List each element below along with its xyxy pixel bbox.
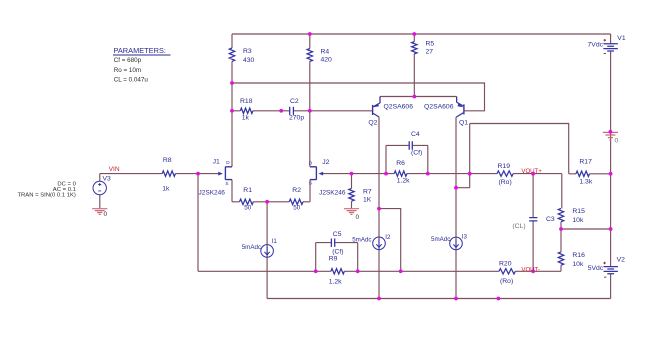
svg-text:TRAN = SIN(0 0.1 1K): TRAN = SIN(0 0.1 1K): [17, 192, 75, 198]
svg-text:J2SK246: J2SK246: [199, 190, 226, 197]
svg-text:C2: C2: [290, 98, 299, 105]
svg-text:0: 0: [615, 138, 619, 145]
svg-text:50: 50: [293, 204, 301, 211]
svg-text:R7: R7: [363, 189, 372, 196]
svg-text:1k: 1k: [162, 186, 170, 193]
svg-text:R3: R3: [243, 48, 252, 55]
svg-text:Q2SA606: Q2SA606: [384, 103, 414, 110]
svg-text:R4: R4: [321, 48, 330, 55]
svg-text:(Ro): (Ro): [499, 179, 512, 186]
svg-text:1K: 1K: [363, 197, 372, 204]
svg-text:PARAMETERS:: PARAMETERS:: [114, 46, 166, 55]
svg-text:R6: R6: [396, 160, 405, 167]
svg-text:R20: R20: [499, 261, 512, 268]
svg-text:1.2k: 1.2k: [397, 178, 410, 185]
svg-text:Cf = 680p: Cf = 680p: [114, 57, 142, 64]
svg-text:V1: V1: [617, 35, 626, 42]
svg-text:10k: 10k: [572, 261, 584, 268]
svg-text:I1: I1: [272, 238, 278, 245]
svg-text:10k: 10k: [572, 217, 584, 224]
svg-text:50: 50: [244, 204, 252, 211]
svg-text:R19: R19: [498, 163, 511, 170]
svg-text:J1: J1: [213, 159, 220, 166]
svg-text:1.3k: 1.3k: [579, 179, 592, 186]
svg-text:I2: I2: [385, 234, 391, 241]
svg-text:R5: R5: [426, 40, 435, 47]
svg-text:5mAdc: 5mAdc: [431, 236, 450, 243]
svg-text:D: D: [226, 160, 230, 165]
svg-text:J2: J2: [322, 159, 329, 166]
svg-text:0: 0: [104, 211, 108, 218]
svg-text:Ro = 10m: Ro = 10m: [114, 67, 141, 74]
svg-text:Q2SA606: Q2SA606: [424, 103, 454, 110]
svg-text:270p: 270p: [289, 115, 304, 122]
svg-text:1.2k: 1.2k: [329, 278, 342, 285]
svg-text:R18: R18: [240, 98, 253, 105]
svg-text:1k: 1k: [242, 115, 250, 122]
svg-text:R9: R9: [329, 256, 338, 263]
svg-text:420: 420: [321, 57, 333, 64]
svg-text:430: 430: [243, 57, 255, 64]
svg-text:(CL): (CL): [512, 223, 525, 230]
svg-text:Q2: Q2: [368, 119, 377, 126]
svg-text:C5: C5: [333, 231, 342, 238]
svg-text:R8: R8: [163, 157, 172, 164]
svg-text:R15: R15: [572, 208, 585, 215]
svg-text:27: 27: [426, 48, 434, 55]
svg-text:R17: R17: [579, 158, 592, 165]
svg-text:5mAdc: 5mAdc: [242, 244, 261, 251]
svg-text:C4: C4: [411, 131, 420, 138]
svg-text:(Cf): (Cf): [411, 150, 422, 157]
svg-text:(Ro): (Ro): [500, 278, 513, 285]
svg-text:VOUT+: VOUT+: [521, 168, 542, 175]
svg-text:CL = 0.047u: CL = 0.047u: [114, 76, 149, 83]
svg-text:S: S: [225, 181, 228, 186]
svg-text:5Vdc: 5Vdc: [588, 265, 604, 272]
svg-text:7Vdc: 7Vdc: [588, 42, 604, 49]
svg-text:C3: C3: [546, 216, 555, 223]
svg-text:VIN: VIN: [109, 166, 120, 173]
svg-text:S: S: [309, 181, 312, 186]
svg-text:5mAdc: 5mAdc: [352, 236, 371, 243]
svg-text:0: 0: [356, 214, 360, 221]
svg-text:R1: R1: [243, 187, 252, 194]
svg-text:I3: I3: [462, 233, 468, 240]
svg-text:R2: R2: [292, 187, 301, 194]
svg-text:R16: R16: [572, 252, 585, 259]
svg-text:V3: V3: [103, 175, 112, 182]
svg-text:V2: V2: [617, 257, 626, 264]
svg-text:Q1: Q1: [459, 120, 468, 127]
svg-text:J2SK246: J2SK246: [319, 190, 346, 197]
svg-text:VOUT-: VOUT-: [521, 266, 540, 273]
